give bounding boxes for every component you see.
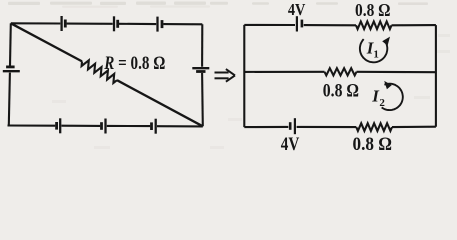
resistor R (on diagonal) xyxy=(82,60,117,83)
svg-text:0.8 Ω: 0.8 Ω xyxy=(355,0,391,20)
resistor 0.8 ohm middle xyxy=(325,68,357,75)
cell right-edge xyxy=(192,68,209,71)
battery 4V top xyxy=(297,16,302,31)
svg-text:1: 1 xyxy=(373,49,379,61)
cell left-edge xyxy=(3,67,20,71)
svg-text:2: 2 xyxy=(379,97,385,109)
cell bottom-2 xyxy=(102,119,106,134)
resistor 0.8 ohm bottom xyxy=(356,123,392,131)
svg-text:R = 0.8 Ω: R = 0.8 Ω xyxy=(103,54,165,74)
wire right-circuit left edge xyxy=(243,25,245,127)
cell top-3 xyxy=(158,17,163,32)
wire right-circuit top edge xyxy=(244,24,436,26)
cell bottom-1 xyxy=(57,118,61,133)
equivalence arrow (double arrow) xyxy=(215,69,236,82)
faint scan bleed-through marks (decorative) xyxy=(8,2,428,6)
wire left-circuit left edge xyxy=(9,23,11,125)
wire right-circuit right edge xyxy=(435,25,437,127)
wire middle branch xyxy=(244,71,436,73)
resistor 0.8 ohm top xyxy=(356,22,392,30)
wire diagonal lower segment xyxy=(117,80,203,126)
current loop arrow I1 xyxy=(360,37,390,63)
current loop arrow I2 xyxy=(382,81,403,110)
wire left-circuit top edge xyxy=(11,23,203,24)
wire left-circuit bottom edge xyxy=(8,124,203,127)
cell top-1 xyxy=(62,16,66,31)
cell bottom-3 xyxy=(152,119,156,134)
wire right-circuit bottom edge xyxy=(244,126,436,129)
svg-text:0.8 Ω: 0.8 Ω xyxy=(353,134,393,154)
wire left-circuit right edge xyxy=(201,24,204,126)
battery 4V bottom xyxy=(290,118,295,134)
svg-text:4V: 4V xyxy=(281,134,300,154)
svg-text:0.8 Ω: 0.8 Ω xyxy=(323,81,359,101)
cell top-2 xyxy=(114,16,118,31)
wire diagonal upper segment xyxy=(11,23,82,61)
svg-text:4V: 4V xyxy=(288,0,306,19)
